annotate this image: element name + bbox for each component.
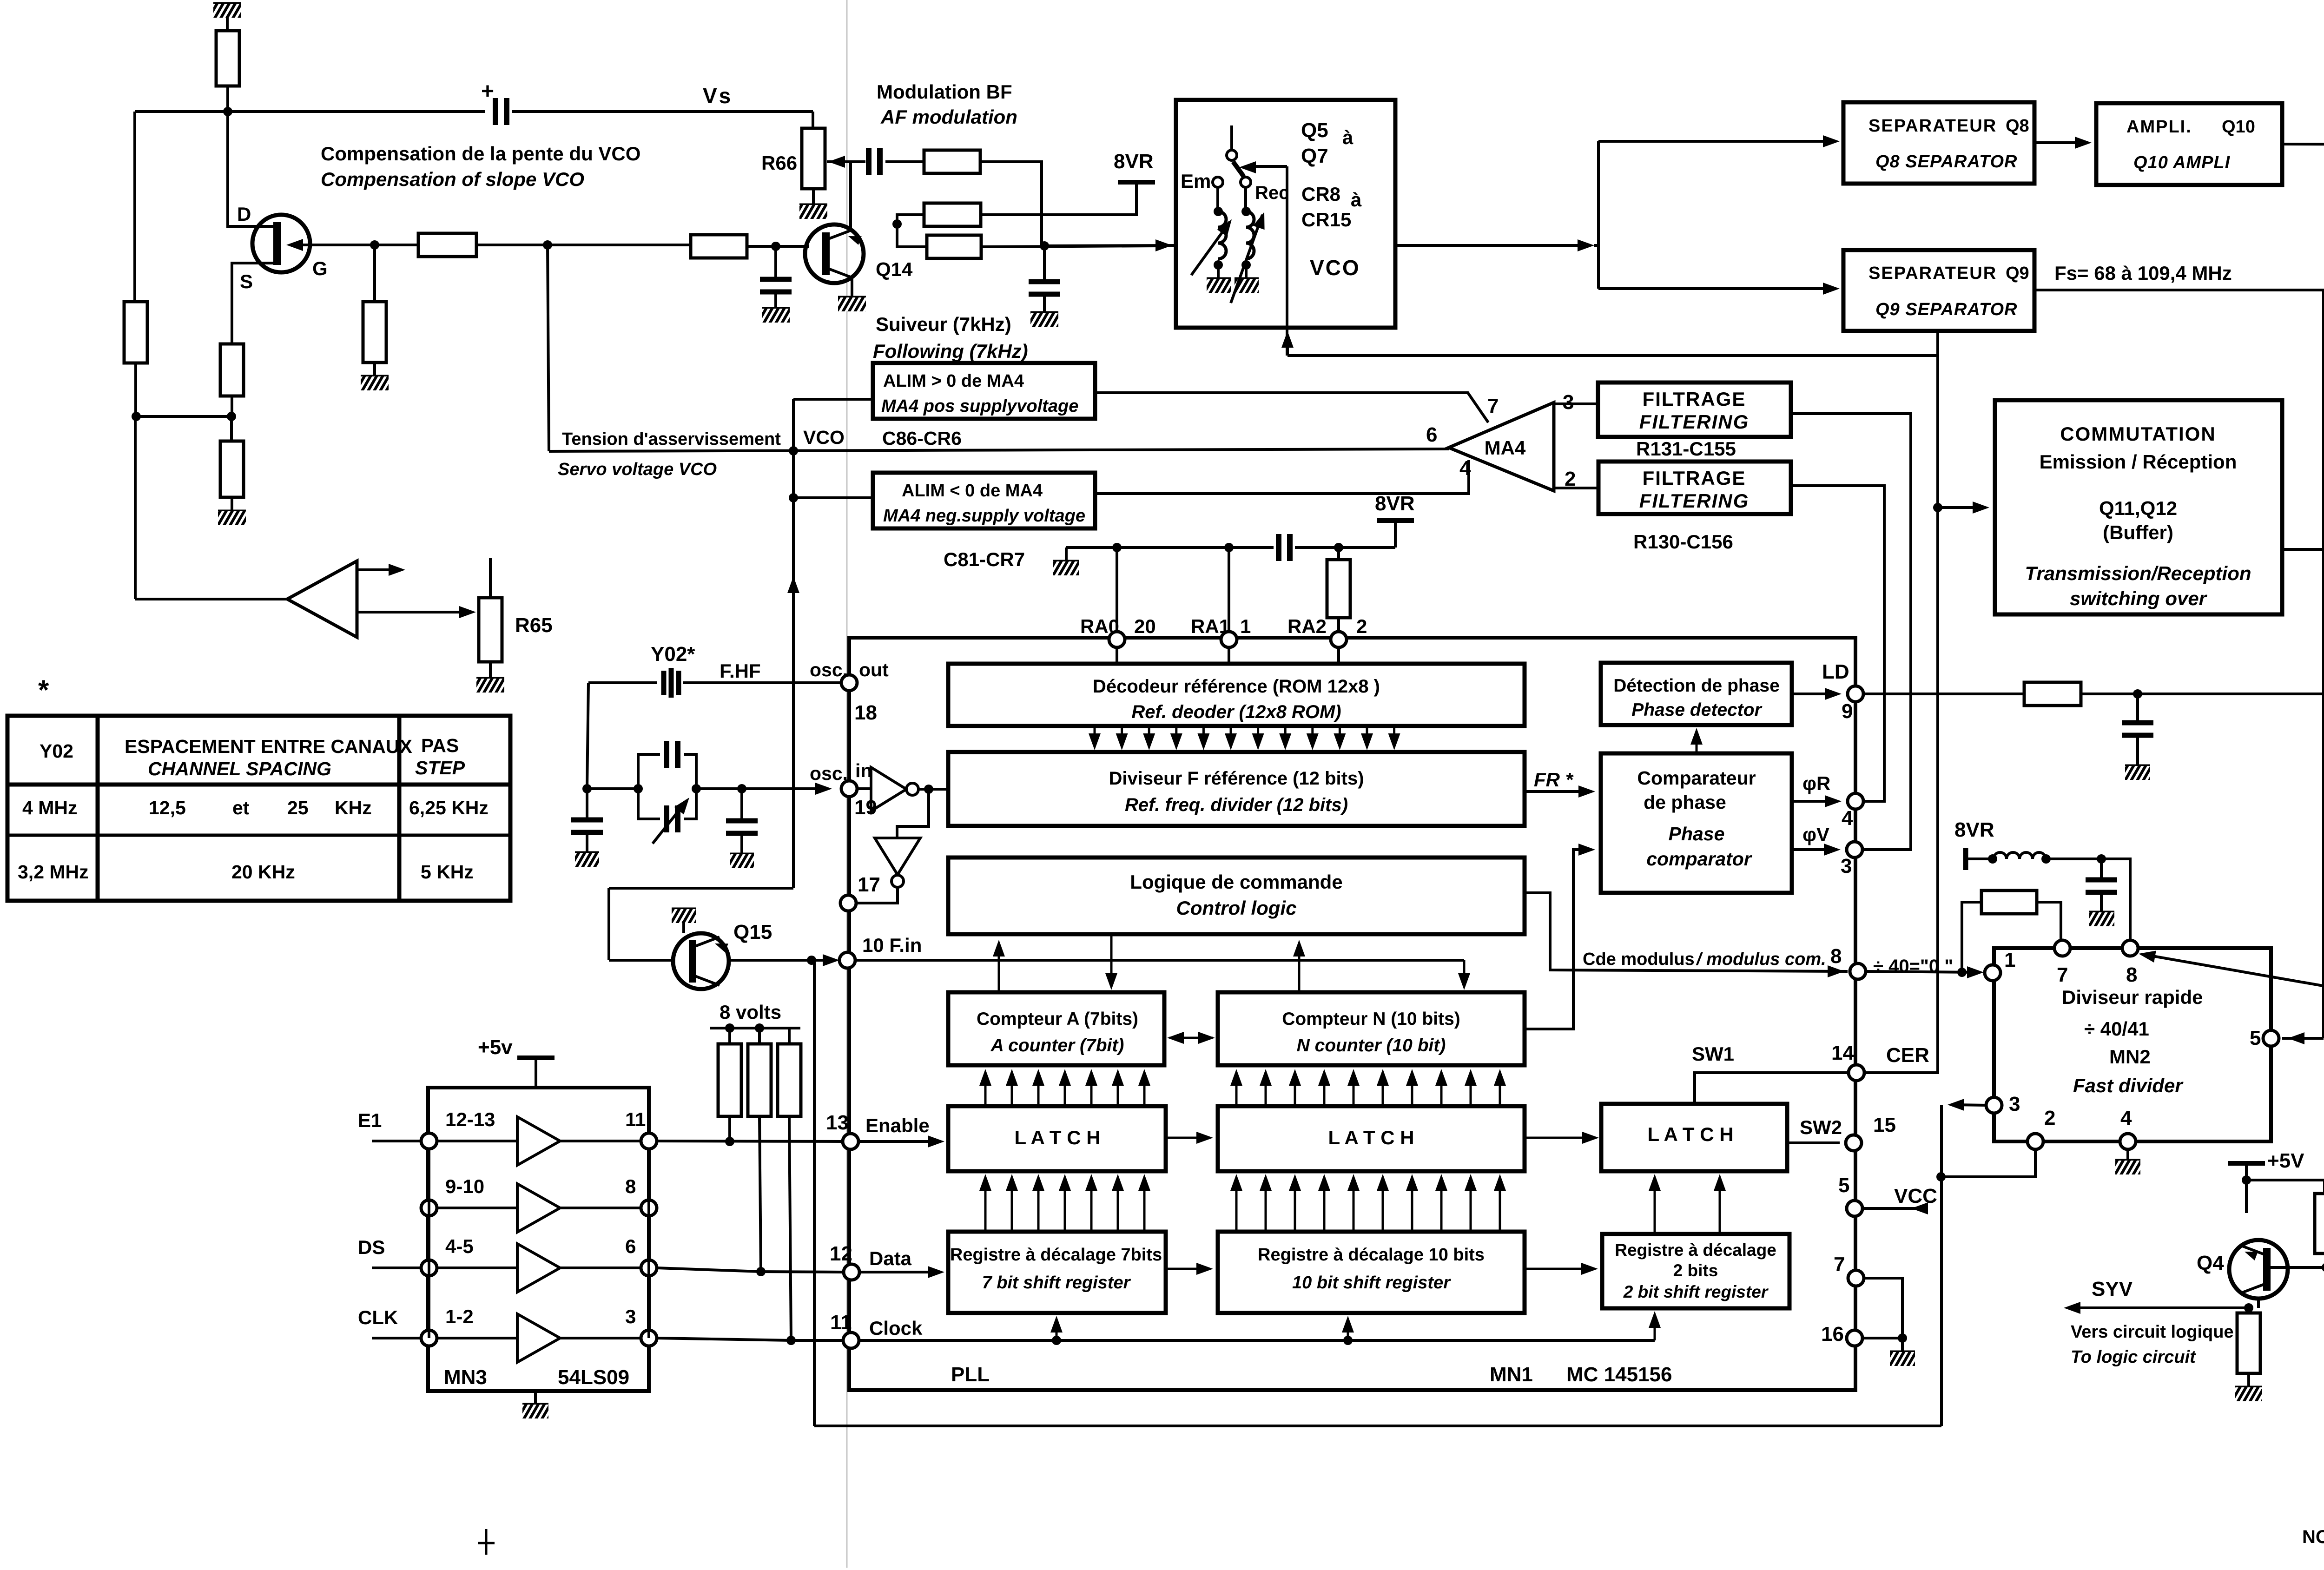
wire left branch down bbox=[133, 112, 136, 302]
wire buf in 9-10 bbox=[437, 1207, 517, 1209]
pin RA0 bbox=[1109, 632, 1125, 647]
svg-text:6: 6 bbox=[625, 1235, 636, 1257]
wire to Q9 bbox=[1598, 287, 1831, 290]
block ampli Q10 bbox=[2096, 103, 2282, 185]
arrow latchN bit 8 bbox=[1435, 1069, 1447, 1104]
svg-text:SW1: SW1 bbox=[1692, 1043, 1734, 1065]
svg-text:de phase: de phase bbox=[1644, 792, 1726, 813]
svg-text:ALIM < 0 de MA4: ALIM < 0 de MA4 bbox=[902, 481, 1043, 501]
wire VCO feedback vertical bbox=[1286, 166, 1288, 356]
wire osc cap1 gnd bbox=[586, 832, 588, 853]
pin switch top bbox=[1227, 150, 1237, 160]
svg-text:D: D bbox=[237, 203, 251, 225]
svg-text:18: 18 bbox=[854, 701, 877, 724]
arrow latchN bit 3 bbox=[1289, 1069, 1301, 1104]
svg-text:+5V: +5V bbox=[2267, 1149, 2304, 1172]
wire between gate resistors bbox=[476, 244, 691, 246]
arrow ROM bit 10 bbox=[1334, 728, 1346, 750]
arrowhead alim diviseur bbox=[2138, 948, 2156, 963]
resistor below S node bbox=[220, 441, 244, 497]
wire LD out bbox=[1792, 693, 1837, 695]
wire trim loop bottom bbox=[638, 789, 660, 819]
wire N out bbox=[1525, 850, 1585, 1029]
wire Vs rail bbox=[135, 110, 485, 113]
pin MN2 2 bbox=[2027, 1134, 2043, 1149]
block registre 2 bbox=[1602, 1234, 1789, 1308]
ground MN2 supply bbox=[2089, 912, 2114, 926]
svg-text:15: 15 bbox=[1873, 1114, 1896, 1136]
svg-text:osc.: osc. bbox=[810, 659, 848, 680]
wire cap to resistor bbox=[885, 160, 924, 163]
block compteur A bbox=[948, 992, 1164, 1065]
svg-text:12: 12 bbox=[830, 1242, 852, 1265]
svg-text:CR15: CR15 bbox=[1301, 209, 1351, 231]
svg-text:6,25 KHz: 6,25 KHz bbox=[409, 797, 489, 818]
arrowhead trim variable bbox=[674, 794, 694, 814]
arrow comp to det bbox=[1690, 728, 1703, 752]
arrowhead opamp top bbox=[389, 564, 405, 576]
svg-text:DS: DS bbox=[358, 1236, 385, 1258]
wire modulation to R66 bbox=[827, 160, 865, 163]
arrowhead FR bbox=[1578, 785, 1595, 798]
block detection phase bbox=[1601, 663, 1792, 725]
wire buf out 4-5 bbox=[560, 1267, 641, 1269]
table col line 1 bbox=[96, 716, 100, 901]
svg-text:STEP: STEP bbox=[415, 757, 465, 778]
arrow reg2 bit 1 bbox=[1649, 1174, 1661, 1232]
ground Q15 bbox=[672, 909, 696, 923]
svg-text:12-13: 12-13 bbox=[445, 1108, 495, 1130]
svg-text:Diviseur F référence (12 bits: Diviseur F référence (12 bits) bbox=[1109, 768, 1364, 789]
power +5v MN3 bbox=[478, 1036, 555, 1059]
fold crease bbox=[846, 0, 848, 1568]
svg-text:Y02: Y02 bbox=[40, 740, 73, 762]
transistor JFET bbox=[252, 215, 310, 272]
capacitor MN2 supply bbox=[2086, 880, 2117, 892]
arrow latchA bit 1 bbox=[979, 1069, 991, 1104]
svg-text:2 bit shift register: 2 bit shift register bbox=[1623, 1282, 1769, 1301]
ground base cap bbox=[762, 309, 790, 323]
svg-text:SW2: SW2 bbox=[1800, 1116, 1842, 1138]
pin 13 Enable bbox=[843, 1134, 858, 1149]
svg-text:4: 4 bbox=[1842, 807, 1853, 830]
arrow regN bit 6 bbox=[1377, 1174, 1389, 1230]
wire alim pos out bbox=[1095, 393, 1488, 422]
wire coil to pin8 bbox=[2046, 859, 2130, 941]
svg-text:φR: φR bbox=[1802, 772, 1830, 794]
resistor divider upper bbox=[924, 203, 981, 226]
wire pin8 to MN2 bbox=[1866, 971, 1980, 972]
block filtrage 1 bbox=[1598, 383, 1791, 437]
wire filtrage2 loop bbox=[1791, 486, 1884, 801]
ground VCO cap bbox=[1030, 313, 1058, 327]
wire +5V branch bbox=[2246, 1180, 2324, 1194]
arrow regA bit 1 bbox=[979, 1174, 991, 1230]
arrowhead MN2 in bbox=[1967, 966, 1984, 978]
wire osc row b bbox=[696, 787, 742, 790]
arrow ROM bit 12 bbox=[1388, 728, 1400, 750]
wire buf in 1-2 bbox=[437, 1337, 517, 1339]
svg-text:Q8: Q8 bbox=[2006, 116, 2029, 136]
svg-text:7: 7 bbox=[1487, 395, 1499, 417]
junction Q4 collector bbox=[2242, 1175, 2251, 1185]
junction osc left bbox=[582, 784, 592, 793]
pin MN2 1 bbox=[1985, 965, 2000, 981]
inverter osc bbox=[871, 767, 918, 811]
wire 8VR stem bbox=[981, 182, 1136, 215]
junction Fin bbox=[807, 956, 816, 965]
wire crystal bottom bbox=[609, 887, 793, 890]
svg-text:Transmission/Reception: Transmission/Reception bbox=[2025, 562, 2251, 584]
svg-text:et: et bbox=[232, 797, 250, 818]
junction Em coil top bbox=[1214, 207, 1223, 216]
junction Rec coil top bbox=[1241, 207, 1251, 216]
wire crystal bottom down bbox=[607, 888, 610, 960]
svg-text:out: out bbox=[859, 659, 889, 680]
svg-text:7 bit shift register: 7 bit shift register bbox=[982, 1273, 1131, 1293]
svg-text:osc.: osc. bbox=[810, 763, 848, 784]
wire 6 to data bbox=[657, 1268, 844, 1272]
arrow trim variable bbox=[653, 800, 687, 844]
wire opamp top out bbox=[357, 568, 395, 571]
svg-text:÷ 40/41: ÷ 40/41 bbox=[2084, 1018, 2149, 1040]
junction commutation feed bbox=[1933, 503, 1942, 512]
ground MN2 pin4 bbox=[2115, 1161, 2140, 1174]
arrowhead data bbox=[928, 1266, 944, 1278]
svg-text:Cde modulus: Cde modulus bbox=[1583, 950, 1695, 969]
ground MN3 bbox=[522, 1405, 548, 1418]
svg-text:φV: φV bbox=[1802, 824, 1829, 845]
svg-text:RA2: RA2 bbox=[1287, 615, 1327, 637]
wire LD line bbox=[1863, 693, 2024, 695]
svg-text:Comparateur: Comparateur bbox=[1637, 767, 1756, 789]
pin 7 pll bbox=[1848, 1270, 1864, 1286]
svg-text:SYV: SYV bbox=[2092, 1278, 2133, 1300]
svg-text:Q4: Q4 bbox=[2197, 1252, 2224, 1274]
arrowhead pin3 bbox=[1948, 1099, 1964, 1111]
arrowhead Em varicap bbox=[1217, 216, 1237, 237]
pin switch em bbox=[1213, 177, 1223, 187]
svg-text:1: 1 bbox=[2004, 949, 2015, 971]
resistor R66 bbox=[802, 128, 825, 189]
svg-text:comparator: comparator bbox=[1646, 848, 1752, 870]
wire enable to latch bbox=[858, 1140, 934, 1143]
wire osc cap1 stub bbox=[586, 789, 588, 820]
pin 8 modulus bbox=[1850, 963, 1866, 979]
pin 5 VCC bbox=[1847, 1201, 1862, 1216]
svg-text:Phase detector: Phase detector bbox=[1631, 700, 1762, 720]
resistor top-left bbox=[216, 31, 239, 86]
wire VCC arrow bbox=[1862, 1207, 1928, 1210]
arrow ROM bit 2 bbox=[1116, 728, 1128, 750]
arrow latchN bit 6 bbox=[1377, 1069, 1389, 1104]
junction alim neg bbox=[789, 493, 798, 502]
svg-text:FILTERING: FILTERING bbox=[1639, 411, 1750, 433]
buffer 12-13 bbox=[517, 1117, 560, 1165]
wire pin16 gnd stem bbox=[1901, 1338, 1904, 1352]
arrow latchA bit 5 bbox=[1085, 1069, 1097, 1104]
arrow regN bit 7 bbox=[1406, 1174, 1418, 1230]
svg-text:R131-C155: R131-C155 bbox=[1636, 438, 1736, 460]
arrow regN bit 10 bbox=[1494, 1174, 1506, 1230]
svg-text:Détection de phase: Détection de phase bbox=[1613, 676, 1780, 696]
wire volts bus bbox=[710, 1027, 800, 1029]
wire vco cell left bbox=[792, 399, 795, 451]
svg-text:VCO: VCO bbox=[803, 427, 845, 448]
arrowhead enable bbox=[928, 1135, 944, 1148]
block decodeur ROM bbox=[948, 664, 1525, 726]
arrow ctrl N up bbox=[1293, 940, 1305, 990]
block latch N bbox=[1218, 1106, 1525, 1171]
junction gate node bbox=[370, 240, 379, 250]
resistor R65 bbox=[479, 598, 502, 662]
pin MN2 4 bbox=[2120, 1134, 2136, 1149]
svg-text:7: 7 bbox=[1834, 1253, 1845, 1276]
svg-text:4-5: 4-5 bbox=[445, 1235, 474, 1257]
pin 19 osc in bbox=[841, 781, 857, 797]
wire MN3 left bus bbox=[428, 1149, 430, 1338]
ground R65 bbox=[476, 679, 504, 693]
wire VCO filter cap drop bbox=[1043, 246, 1046, 282]
wire Em coil gnd bbox=[1217, 265, 1220, 279]
junction inverter out bbox=[924, 785, 933, 794]
arrowhead osc in bbox=[815, 783, 832, 795]
wire 8VR RA stem bbox=[1394, 521, 1397, 548]
arrow regA to regN bbox=[1166, 1263, 1213, 1275]
wire alim diviseur arrow bbox=[2147, 955, 2324, 996]
arrow Rec varicap bbox=[1231, 215, 1262, 303]
arrowhead gate bbox=[286, 239, 303, 251]
pin 4 phiR bbox=[1848, 793, 1863, 809]
resistor modulation bbox=[924, 150, 980, 173]
arrow latchN bit 10 bbox=[1494, 1069, 1506, 1104]
svg-text:Registre à décalage 10 bits: Registre à décalage 10 bits bbox=[1258, 1245, 1485, 1265]
wire RA ground stub bbox=[1065, 548, 1068, 561]
arrow regN bit 2 bbox=[1260, 1174, 1272, 1230]
arrow regN to reg2 bbox=[1525, 1263, 1598, 1275]
wire servo line bbox=[549, 449, 1449, 451]
svg-text:3: 3 bbox=[625, 1306, 636, 1327]
inverter 2 bbox=[875, 838, 920, 887]
wire D from Vs node bbox=[228, 112, 275, 226]
junction RA0 bbox=[1112, 543, 1122, 552]
ground R66 bbox=[799, 205, 827, 219]
wire S resistor to node bbox=[231, 396, 233, 416]
block latch SW bbox=[1601, 1104, 1787, 1171]
svg-text:11: 11 bbox=[830, 1311, 852, 1334]
svg-text:MA4: MA4 bbox=[1485, 437, 1526, 459]
svg-text:2 bits: 2 bits bbox=[1673, 1261, 1718, 1280]
arrowhead VCO feedback bbox=[1281, 331, 1294, 348]
wire osc row a bbox=[587, 787, 638, 790]
svg-text:RA1: RA1 bbox=[1191, 615, 1230, 637]
wire clock line bbox=[859, 1339, 1655, 1342]
junction osc right bbox=[737, 784, 746, 793]
wire Q14 emitter bbox=[851, 278, 853, 297]
ground gate bias bbox=[361, 376, 389, 390]
svg-text:8VR: 8VR bbox=[1375, 492, 1415, 515]
junction S node bbox=[227, 412, 236, 421]
wire FR arrow bbox=[1525, 790, 1585, 793]
wire pin4 gnd bbox=[2126, 1149, 2129, 1161]
svg-text:Logique de commande: Logique de commande bbox=[1130, 871, 1342, 893]
arrowhead commutation bbox=[1973, 501, 1989, 514]
svg-text:10 bit shift register: 10 bit shift register bbox=[1292, 1273, 1451, 1293]
svg-text:10 F.in: 10 F.in bbox=[862, 934, 922, 956]
block commutation bbox=[1995, 400, 2282, 614]
capacitor base shunt bbox=[760, 279, 792, 292]
block logique bbox=[948, 858, 1525, 934]
arrowhead Fin bbox=[823, 954, 839, 966]
wire buf in 4-5 bbox=[437, 1267, 517, 1269]
wire Fin feedback drop bbox=[813, 960, 816, 1426]
svg-text:2: 2 bbox=[2044, 1107, 2055, 1129]
junction coil left bbox=[1988, 854, 1997, 864]
wire osc cap2 stub bbox=[740, 789, 743, 821]
junction base cap bbox=[771, 242, 780, 251]
wire pullup stub 3 bbox=[788, 1028, 791, 1044]
arrow regA bit 5 bbox=[1085, 1174, 1097, 1230]
svg-text:Enable: Enable bbox=[865, 1115, 930, 1136]
svg-text:PLL: PLL bbox=[951, 1363, 990, 1386]
svg-text:5: 5 bbox=[1838, 1174, 1849, 1197]
wire pullup3 to clock bbox=[789, 1116, 791, 1340]
svg-text:in: in bbox=[855, 760, 872, 781]
arrow ROM bit 3 bbox=[1143, 728, 1155, 750]
inductor MN2 supply bbox=[1994, 852, 2046, 859]
wire pullup stub 1 bbox=[728, 1028, 731, 1044]
junction VCO line bbox=[1040, 241, 1049, 251]
arrowhead pin5 bbox=[2288, 1032, 2304, 1044]
block filtrage 2 bbox=[1598, 462, 1791, 514]
arrow regN bit 1 bbox=[1230, 1174, 1242, 1230]
wire trim loop top right bbox=[684, 754, 696, 789]
svg-text:1-2: 1-2 bbox=[445, 1306, 474, 1327]
wire phiR out bbox=[1792, 800, 1837, 803]
junction pin3 loop bbox=[1936, 1172, 1946, 1181]
wire Q4 base bbox=[2270, 1266, 2324, 1269]
buffer 4-5 bbox=[517, 1244, 560, 1292]
svg-text:16: 16 bbox=[1821, 1323, 1844, 1346]
wire RA1 drop bbox=[1228, 548, 1230, 632]
wire rec arrow line bbox=[1250, 165, 1287, 168]
svg-text:FILTRAGE: FILTRAGE bbox=[1643, 388, 1746, 410]
arrow reg2 bit 2 bbox=[1714, 1174, 1726, 1232]
arrow regN bit 4 bbox=[1318, 1174, 1330, 1230]
switch blade bbox=[1233, 162, 1244, 177]
svg-text:4 MHz: 4 MHz bbox=[22, 797, 77, 818]
svg-text:L A T C H: L A T C H bbox=[1328, 1127, 1414, 1148]
wire Q4 emitter bbox=[2257, 1299, 2260, 1308]
junction Q14 collector net bbox=[892, 219, 902, 229]
resistor LD bbox=[2024, 682, 2081, 706]
svg-text:MA4 neg.supply voltage: MA4 neg.supply voltage bbox=[883, 506, 1085, 526]
wire LD cap gnd bbox=[2136, 735, 2139, 766]
wire MN3 gnd stem bbox=[534, 1391, 537, 1405]
transistor Q14 bbox=[805, 224, 864, 283]
resistor divider lower bbox=[927, 235, 981, 258]
svg-text:Compteur N (10 bits): Compteur N (10 bits) bbox=[1282, 1009, 1460, 1029]
pin RA2 bbox=[1331, 632, 1347, 647]
arrowhead ampli bbox=[2075, 137, 2092, 149]
svg-text:R65: R65 bbox=[515, 614, 553, 637]
pin MN2 8 bbox=[2122, 940, 2138, 956]
arrow latch N to latch SW bbox=[1525, 1132, 1599, 1144]
svg-text:RA0: RA0 bbox=[1080, 615, 1119, 637]
svg-text:5 KHz: 5 KHz bbox=[421, 861, 474, 883]
wire filtrage1 loop bbox=[1791, 414, 1911, 850]
arrowhead N to comp bbox=[1578, 844, 1595, 856]
svg-text:Ref. deoder (12x8 ROM): Ref. deoder (12x8 ROM) bbox=[1131, 702, 1341, 722]
capacitor modulation bbox=[869, 148, 880, 175]
wire splitter vertical bbox=[1597, 141, 1600, 289]
svg-text:SEPARATEUR: SEPARATEUR bbox=[1868, 116, 1997, 136]
svg-text:25: 25 bbox=[287, 797, 309, 818]
svg-text:Phase: Phase bbox=[1669, 823, 1725, 844]
svg-text:8VR: 8VR bbox=[1114, 150, 1154, 173]
op-amp MA3 bbox=[287, 561, 357, 637]
svg-text:1: 1 bbox=[1240, 615, 1251, 637]
wire FHF left bbox=[588, 681, 657, 684]
arrowhead SYV bbox=[2064, 1302, 2080, 1314]
wire vco cell top bbox=[793, 398, 873, 401]
wire Q15 out bbox=[729, 959, 812, 962]
wire emitter res gnd bbox=[2247, 1373, 2250, 1387]
wire MA4 out3 bbox=[1554, 402, 1598, 405]
wire trim loop bottom right bbox=[684, 789, 696, 819]
wire Q14 collector bbox=[849, 162, 852, 230]
wire to Q14 base bbox=[747, 245, 809, 248]
wire SW1 bbox=[1695, 1073, 1864, 1104]
svg-text:N counter (10 bit): N counter (10 bit) bbox=[1297, 1036, 1446, 1055]
svg-text:C81-CR7: C81-CR7 bbox=[944, 548, 1025, 570]
pin MN2 3 bbox=[1986, 1097, 2002, 1113]
wire modulation corner bbox=[980, 162, 1042, 246]
svg-text:Ref. freq. divider (12 bits: Ref. freq. divider (12 bits) bbox=[1125, 795, 1348, 815]
svg-text:R130-C156: R130-C156 bbox=[1633, 531, 1733, 553]
arrow latchA bit 7 bbox=[1138, 1069, 1150, 1104]
wire CLK in bbox=[372, 1337, 421, 1339]
svg-text:Control logic: Control logic bbox=[1176, 897, 1297, 919]
ground osc right bbox=[730, 854, 754, 868]
arrowhead Q9 bbox=[1823, 283, 1840, 295]
block separateur Q8 bbox=[1843, 102, 2034, 184]
svg-text:Q15: Q15 bbox=[733, 921, 772, 943]
svg-text:SEPARATEUR: SEPARATEUR bbox=[1868, 264, 1997, 283]
svg-text:FILTRAGE: FILTRAGE bbox=[1643, 467, 1746, 489]
svg-text:VCO: VCO bbox=[1310, 256, 1360, 280]
svg-text:5: 5 bbox=[2250, 1027, 2261, 1049]
wire left branch to node bbox=[134, 363, 137, 416]
resistor MN2 loop bbox=[1981, 891, 2037, 914]
junction mod branch bbox=[1957, 968, 1967, 977]
arrow ROM bit 6 bbox=[1225, 728, 1237, 750]
arrow regA bit 6 bbox=[1112, 1174, 1124, 1230]
wire buf in 12-13 bbox=[437, 1140, 517, 1142]
wire inv2 feed bbox=[897, 789, 929, 838]
arrowhead Rec varicap bbox=[1253, 210, 1270, 230]
wire servo drop bbox=[548, 245, 549, 451]
wire trim loop top bbox=[638, 754, 660, 789]
arrow Fin to counter bbox=[1458, 960, 1470, 990]
junction RA2 top bbox=[1334, 543, 1343, 552]
svg-text:Q11,Q12: Q11,Q12 bbox=[2099, 497, 2177, 519]
wire supply cap stub bbox=[2100, 859, 2103, 880]
svg-text:Q10: Q10 bbox=[2222, 117, 2255, 137]
resistor Q4 emitter bbox=[2237, 1313, 2260, 1373]
wire pin7 loopback bbox=[1962, 902, 1981, 972]
svg-text:8: 8 bbox=[1830, 945, 1842, 968]
